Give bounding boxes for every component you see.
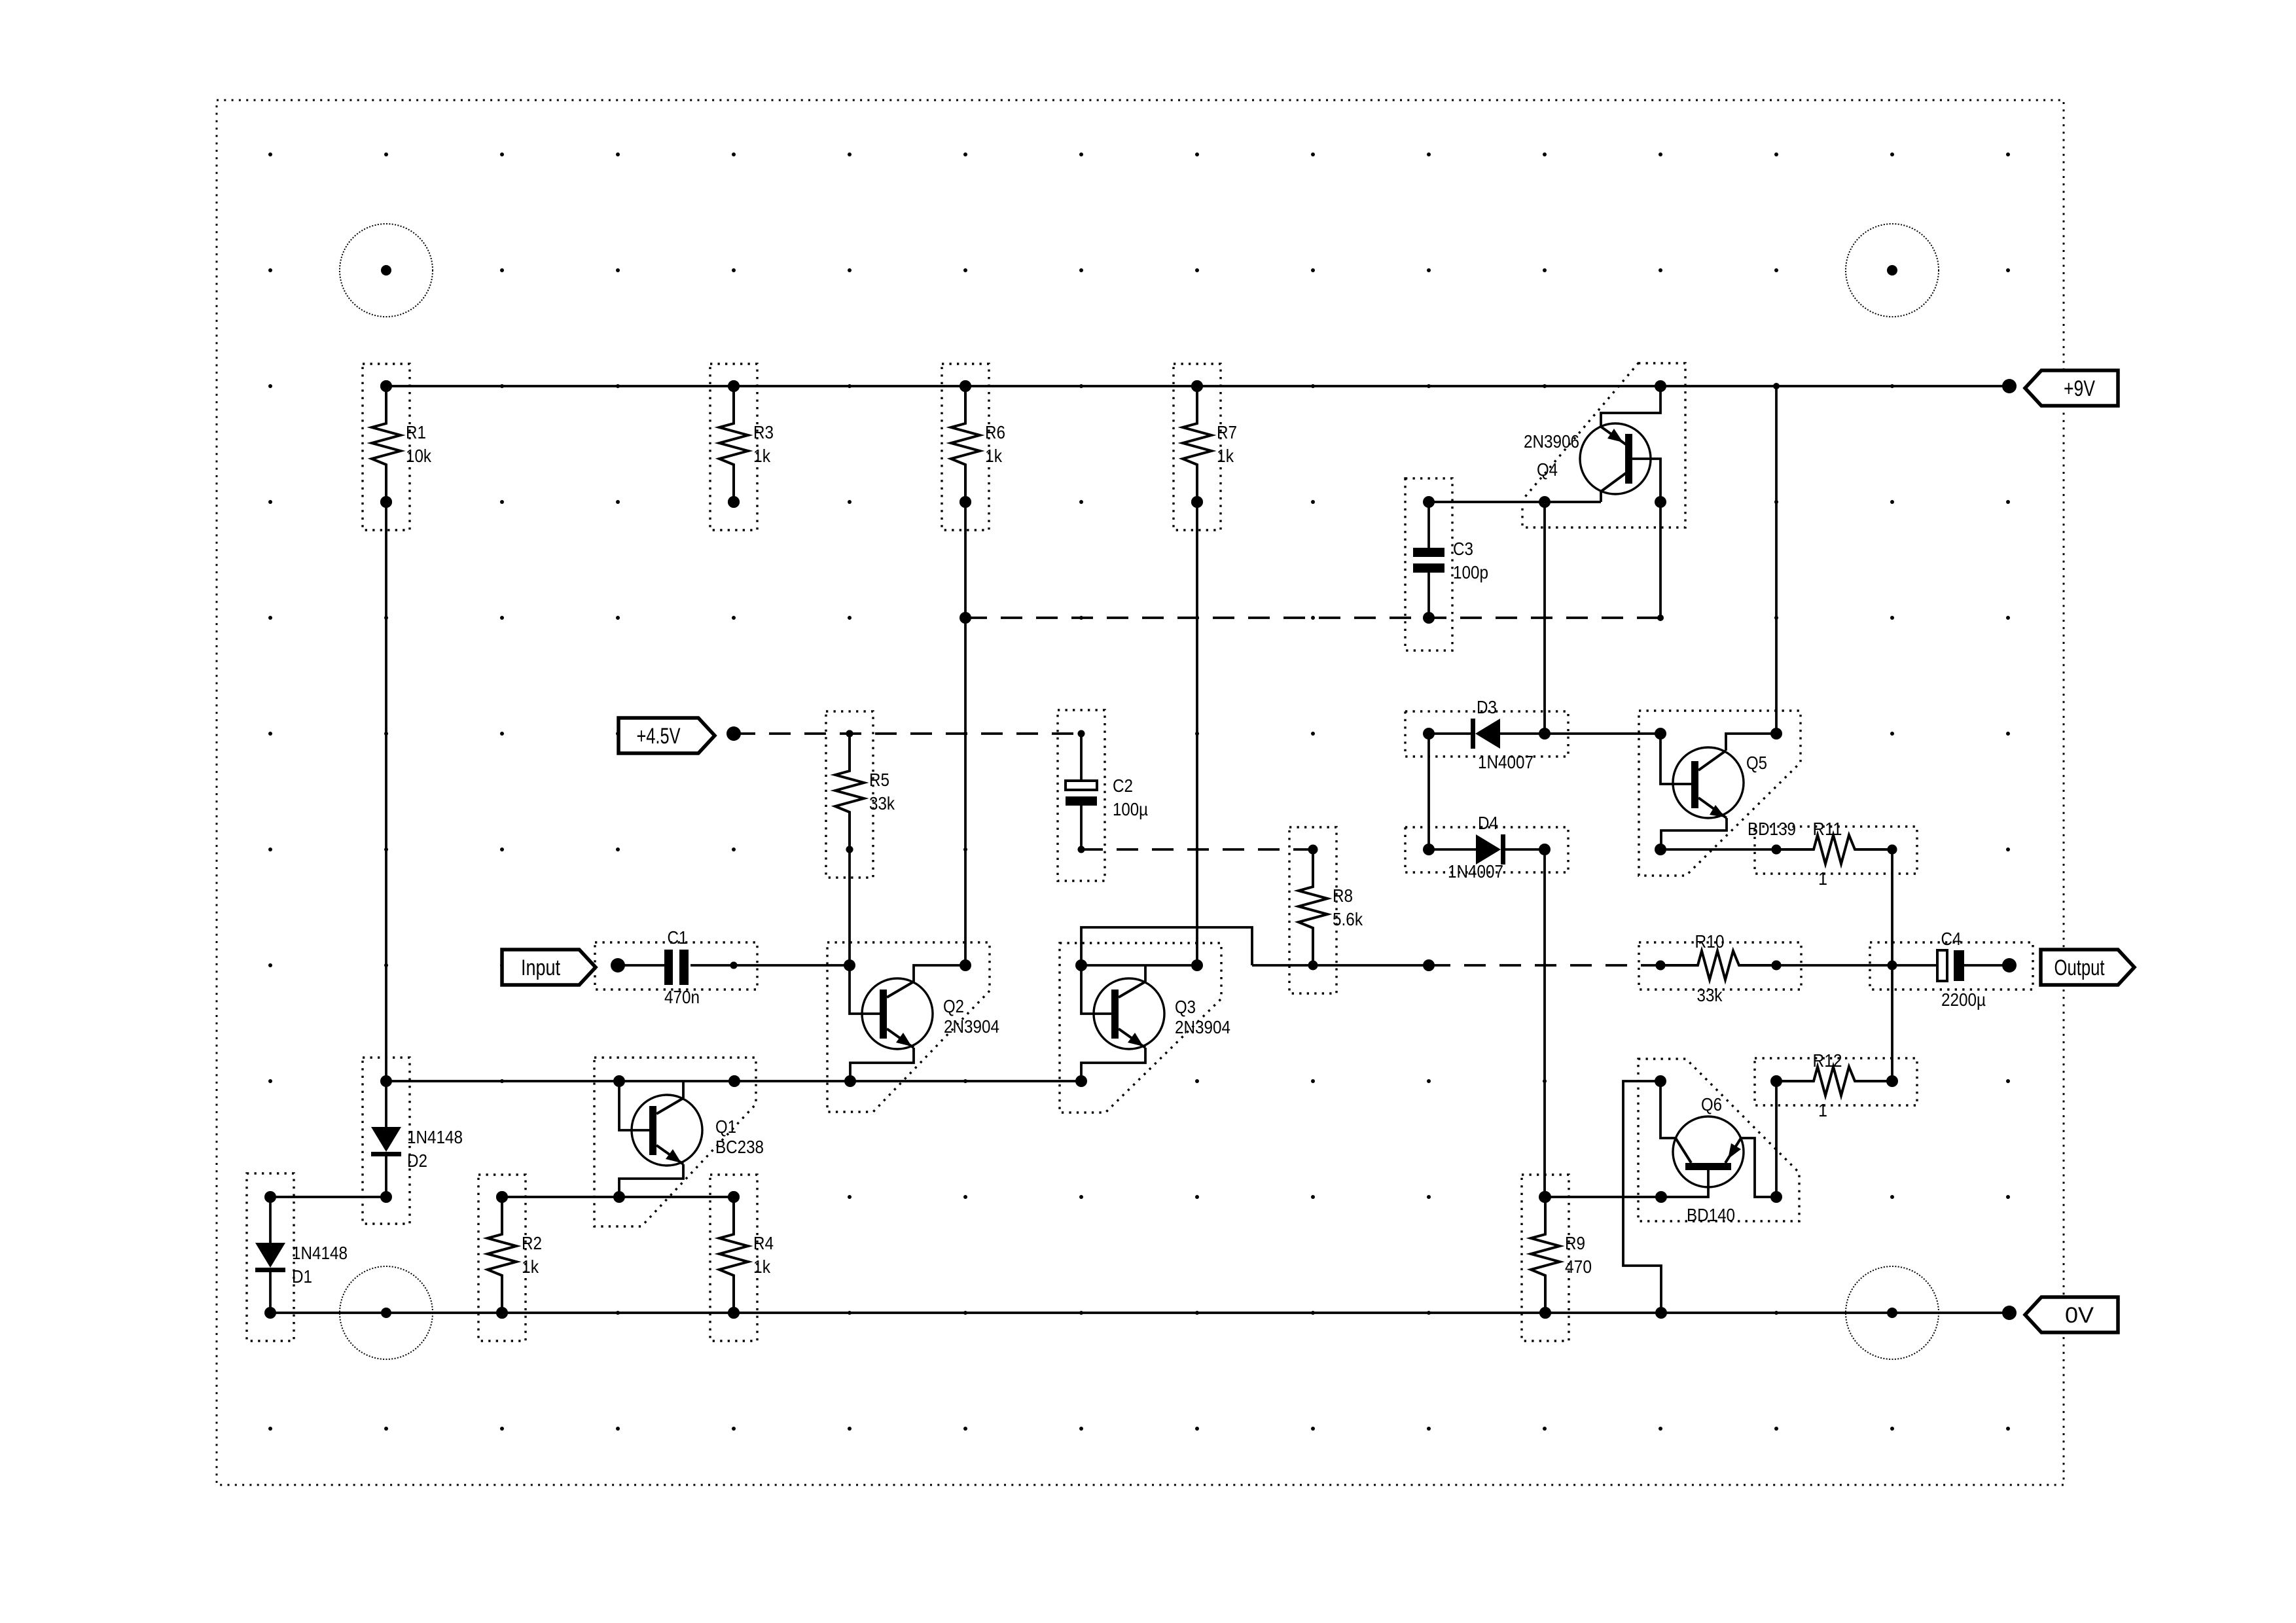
terminal 0V [2025, 1297, 2118, 1332]
wire R2 top to R4 top (row Y9) [502, 1196, 734, 1198]
resistor R4 [710, 1175, 774, 1341]
resistor R2 [478, 1175, 542, 1341]
svg-text:+9V: +9V [2064, 376, 2095, 401]
resistor R5 [826, 711, 895, 878]
transistor Q2 [827, 942, 999, 1112]
svg-text:R11: R11 [1813, 819, 1842, 839]
mounting hole top-right [1846, 224, 1939, 317]
wire R1 bottom to D2 top (X1 column) [385, 502, 387, 1081]
svg-text:470: 470 [1565, 1257, 1592, 1277]
wire Q4 collector junction down to D3 right [1543, 502, 1546, 734]
wire D3 left to D4 left [1427, 734, 1430, 849]
svg-text:2N3904: 2N3904 [944, 1016, 999, 1037]
svg-text:BD139: BD139 [1748, 819, 1796, 839]
svg-text:C4: C4 [1941, 929, 1962, 949]
svg-text:Output: Output [2054, 955, 2105, 980]
resistor R12 [1755, 1050, 1917, 1120]
wire +9V rail to Q5 collector (X13 column) [1775, 386, 1778, 734]
wire +4.5V dashed to R5 top and C2 top [734, 732, 1081, 735]
svg-text:BD140: BD140 [1687, 1205, 1735, 1225]
grid dots [268, 152, 2010, 1431]
svg-text:1k: 1k [985, 446, 1003, 466]
svg-text:D1: D1 [292, 1266, 312, 1287]
svg-text:Q4: Q4 [1537, 459, 1558, 480]
svg-text:R4: R4 [753, 1233, 774, 1253]
svg-text:BC238: BC238 [715, 1137, 764, 1157]
svg-text:R7: R7 [1217, 422, 1237, 442]
wire R5 bottom to Q2 base [850, 849, 880, 1014]
wire R11 right to R12 right [1891, 849, 1893, 1081]
wire R6 column dashed to C3 bottom and Q4 base [965, 616, 1660, 619]
capacitor C1 [595, 927, 757, 1007]
svg-text:5.6k: 5.6k [1333, 909, 1363, 929]
nodes junction pads [264, 380, 1898, 1319]
wire R7 bottom to Q3 row (X8 column) [1196, 502, 1198, 965]
svg-text:33k: 33k [869, 793, 895, 813]
wire Q5 emitter to R11 left [1660, 848, 1776, 851]
mounting hole bottom-right [1846, 1266, 1939, 1359]
board border (dotted) [217, 100, 2064, 1485]
capacitor C3 [1405, 478, 1488, 651]
wire D4 right down to R9 top [1543, 849, 1546, 1197]
diode D1 [247, 1173, 348, 1341]
svg-text:1k: 1k [753, 446, 771, 466]
mounting hole bottom-left [340, 1266, 433, 1359]
svg-text:+4.5V: +4.5V [637, 724, 681, 749]
diode D2 [363, 1058, 463, 1224]
svg-text:Input: Input [521, 955, 560, 980]
svg-text:R12: R12 [1813, 1050, 1842, 1071]
diode D3 [1405, 697, 1568, 772]
svg-text:1k: 1k [753, 1257, 771, 1277]
transistor Q6 [1545, 1059, 1799, 1225]
transistor Q3 [1060, 943, 1230, 1113]
nodes small pin pads [730, 730, 1085, 969]
svg-text:2200µ: 2200µ [1941, 990, 1986, 1010]
svg-text:R3: R3 [753, 422, 774, 442]
wire jog above Q3 [1081, 927, 1252, 965]
wire Y7 to R8 bottom and R10 [1252, 964, 1429, 967]
wire Q3 collector row [1081, 964, 1197, 967]
svg-text:R5: R5 [869, 770, 889, 790]
terminal Input [502, 950, 596, 985]
wire C4 to output pad [1964, 964, 2009, 967]
capacitor C2 [1058, 710, 1148, 881]
resistor R3 [710, 364, 774, 530]
svg-text:C2: C2 [1113, 776, 1133, 796]
svg-text:R6: R6 [985, 422, 1005, 442]
wire R12 left down to Q6 emitter node [1775, 1081, 1778, 1197]
resistor R1 [363, 364, 432, 530]
svg-text:D4: D4 [1478, 813, 1498, 833]
svg-text:470n: 470n [664, 987, 700, 1007]
resistor R9 [1522, 1175, 1592, 1341]
svg-text:Q5: Q5 [1746, 753, 1767, 773]
wire +9V rail [386, 385, 2009, 387]
svg-text:D3: D3 [1477, 697, 1497, 717]
wire R6 bottom to Q2 collector row (X6 column) [964, 502, 967, 965]
nodes rail end dots [611, 379, 2017, 1320]
resistor R7 [1174, 364, 1237, 530]
nodes medium pads R10 R11 R12 C4 [1656, 845, 1897, 1086]
svg-text:1: 1 [1818, 1100, 1827, 1120]
svg-text:100µ: 100µ [1113, 799, 1148, 819]
capacitor C4 [1870, 929, 2033, 1010]
wire R10 right to C4 [1776, 964, 1939, 967]
terminal Output [2041, 950, 2134, 985]
transistor Q1 [594, 1058, 764, 1226]
svg-text:Q2: Q2 [943, 996, 964, 1016]
svg-text:R1: R1 [406, 422, 426, 442]
svg-text:0V: 0V [2065, 1303, 2094, 1328]
svg-text:C3: C3 [1453, 539, 1473, 559]
resistor R8 [1289, 827, 1363, 993]
wire dashed R8 node to R10 left [1429, 964, 1660, 967]
svg-text:R8: R8 [1333, 885, 1353, 906]
wire C2 bottom dashed to R8 top [1081, 848, 1313, 851]
wire D1 top to D2 bottom (row Y9) [270, 1196, 386, 1198]
svg-text:Q1: Q1 [715, 1116, 736, 1137]
svg-text:1N4148: 1N4148 [292, 1243, 348, 1263]
svg-text:33k: 33k [1697, 985, 1723, 1005]
wire 0V rail [270, 1311, 2009, 1314]
svg-text:1k: 1k [1217, 446, 1234, 466]
svg-text:1N4148: 1N4148 [407, 1127, 463, 1147]
wire C3 top to Q4 collector (row Y3) [1429, 501, 1601, 503]
svg-text:1N4007: 1N4007 [1448, 861, 1503, 882]
svg-text:R10: R10 [1695, 931, 1725, 952]
svg-text:10k: 10k [406, 446, 432, 466]
wire C1 to R5 column junction [691, 964, 850, 967]
svg-text:100p: 100p [1453, 562, 1488, 582]
svg-text:1N4007: 1N4007 [1478, 752, 1534, 772]
svg-text:Q6: Q6 [1701, 1094, 1722, 1115]
svg-text:Q3: Q3 [1175, 997, 1196, 1017]
svg-text:1k: 1k [522, 1257, 539, 1277]
svg-text:D2: D2 [407, 1150, 427, 1171]
svg-text:1: 1 [1818, 868, 1827, 889]
wire Q6 collector to 0V rail [1623, 1081, 1661, 1313]
svg-text:2N3906: 2N3906 [1524, 431, 1579, 452]
svg-text:R2: R2 [522, 1233, 542, 1253]
resistor R11 [1755, 819, 1917, 889]
diode D4 [1405, 813, 1568, 882]
svg-text:R9: R9 [1565, 1233, 1585, 1253]
wire D3 right to Q5 base [1545, 732, 1660, 735]
wire Y8 row D2 top to Q3 emitter [386, 1080, 1081, 1082]
resistor R10 [1639, 931, 1801, 1005]
nodes small junction dots [1657, 383, 1780, 621]
transistor Q5 [1639, 711, 1801, 876]
wire Q4 base down to dashed row [1659, 502, 1662, 618]
svg-text:2N3904: 2N3904 [1175, 1017, 1230, 1037]
resistor R6 [942, 364, 1005, 530]
transistor Q4 [1522, 363, 1685, 527]
wire input pad to C1 [618, 964, 664, 967]
terminal +9V [2025, 370, 2118, 406]
terminal +4.5V [619, 718, 715, 753]
mounting hole top-left [340, 224, 433, 317]
svg-text:C1: C1 [668, 927, 688, 948]
